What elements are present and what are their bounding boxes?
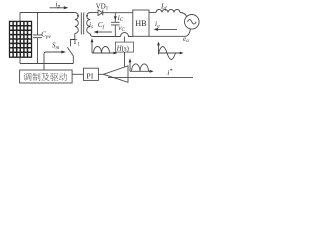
- wire: reference i* line: [108, 77, 193, 79]
- capacitor Cpv: [33, 13, 42, 64]
- arrowhead graph2 up: [129, 58, 132, 62]
- svg-text:vC: vC: [118, 23, 125, 33]
- capacitor Cf: [111, 13, 120, 37]
- svg-text:Cf: Cf: [98, 21, 105, 30]
- wire: inductor to source: [180, 13, 187, 17]
- transformer T1 secondary winding: [87, 13, 90, 34]
- transformer core: [81, 13, 83, 35]
- label modulation-and-drive CJK: [23, 73, 67, 81]
- svg-text:i*: i*: [167, 68, 172, 77]
- arrowhead ia left: [154, 28, 159, 31]
- HB block: [133, 10, 149, 36]
- PV panel PV1: [10, 21, 32, 57]
- wire: PV top lead: [19, 13, 21, 22]
- arrowhead ip: [64, 6, 69, 9]
- svg-text:Lf: Lf: [160, 3, 167, 12]
- transformer polarity dots: [77, 15, 79, 17]
- H(s) block: [116, 42, 134, 52]
- wire: HB to source bottom: [149, 29, 190, 36]
- arrow ia annotation: [157, 28, 177, 30]
- wire: PI to summing amp: [98, 73, 103, 75]
- svg-text:PI: PI: [86, 72, 93, 81]
- svg-text:iC: iC: [118, 13, 124, 23]
- wire: drive line to switch: [44, 52, 62, 70]
- svg-text:VD1: VD1: [96, 3, 109, 11]
- wire: sensor to H(s): [124, 37, 126, 43]
- svg-text:HB: HB: [135, 19, 147, 28]
- wire: diode to HB: [103, 12, 133, 14]
- waveform graph2 humps: [132, 64, 149, 71]
- transformer T1 primary winding: [75, 13, 79, 34]
- wire: modulation box to PI: [72, 73, 83, 75]
- arrowhead iC down: [114, 16, 117, 20]
- switch Sm blade: [67, 47, 73, 63]
- arrowhead graph2 right: [150, 70, 154, 73]
- svg-text:ia: ia: [155, 19, 160, 29]
- arrow is annotation: [97, 31, 112, 33]
- arrowhead drive: [61, 51, 66, 54]
- AC source ea: [185, 14, 200, 29]
- wire: secondary bottom rail with sensor loop: [90, 33, 133, 37]
- arrowhead is left: [94, 31, 99, 34]
- wire: bottom rail: [20, 57, 73, 63]
- inductor Lf: [156, 10, 180, 13]
- op-amp summing triangle: [104, 66, 129, 83]
- wire: top rail to transformer primary: [20, 12, 75, 14]
- svg-text:is: is: [89, 20, 93, 30]
- diode VD1: [98, 10, 103, 16]
- svg-text:T1: T1: [73, 37, 81, 47]
- waveform graph2 axes: [130, 61, 150, 71]
- waveform graph1 humps: [94, 47, 110, 53]
- waveform grid sine: [159, 47, 176, 60]
- waveform grid sine axes: [159, 44, 181, 54]
- wire: primary bottom lead: [71, 34, 75, 47]
- wire: H(s) to summing amp: [124, 52, 126, 67]
- arrowhead graph1 up: [91, 38, 94, 42]
- svg-text:ip: ip: [56, 0, 61, 10]
- svg-text:H(s): H(s): [116, 45, 129, 52]
- wire: HB to filter inductor: [149, 12, 156, 14]
- waveform graph1 axes: [92, 41, 114, 53]
- wire: secondary top to diode: [90, 12, 98, 14]
- arrowhead grid sine up: [157, 42, 160, 46]
- svg-text:ea: ea: [183, 34, 189, 44]
- svg-text:Sm: Sm: [52, 42, 60, 51]
- svg-text:Cpv: Cpv: [41, 31, 51, 40]
- modulation and drive block: [20, 70, 73, 83]
- arrowhead graph1 right: [114, 52, 118, 55]
- arrowhead grid sine right: [180, 52, 184, 55]
- PI block: [84, 68, 99, 80]
- arrow ip: [50, 7, 65, 9]
